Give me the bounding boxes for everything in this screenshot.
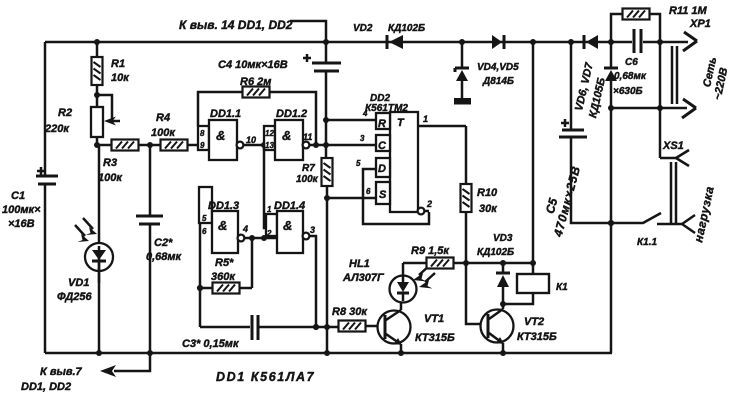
capacitor C5 470u x25V — [543, 42, 611, 239]
node: C2 tap on signal line — [147, 142, 153, 148]
svg-text:9: 9 — [200, 141, 205, 150]
wire: left column with C1 (lower part) — [44, 184, 47, 353]
wire: node A down through VD7 — [610, 42, 613, 68]
svg-text:DD1.2: DD1.2 — [276, 108, 307, 120]
svg-text:13: 13 — [265, 141, 274, 150]
resistor R2 220k (rheostat) — [44, 95, 120, 137]
node: DD1.4 output / C3 / R8 junction — [313, 324, 319, 330]
wire: pin14 feed to rail — [290, 21, 326, 42]
svg-text:R10: R10 — [477, 187, 498, 199]
svg-text:DD1.1: DD1.1 — [210, 108, 241, 120]
resistor R7 100k — [296, 158, 333, 186]
node: XS1 tap on mains pin2 wire — [657, 105, 663, 111]
svg-text:R8 30к: R8 30к — [332, 306, 368, 318]
wire: R3 to R4 — [138, 144, 161, 147]
svg-text:HL1: HL1 — [349, 258, 370, 270]
wire: DD1.2 output to DD2 C input — [309, 144, 376, 147]
svg-text:R: R — [378, 118, 386, 130]
svg-text:С4 10мк×16В: С4 10мк×16В — [218, 59, 288, 71]
output Q-bar bubble (pin 2) — [418, 208, 425, 215]
diode VD8 on rail (relay supply isolation) — [492, 35, 504, 49]
flip-flop DD2 K561TM2 — [365, 93, 418, 212]
connector XP1 pin 2 (arrow) — [611, 99, 696, 118]
capacitor C6 0.68u x630V — [611, 29, 660, 97]
svg-text:С3* 0,15мк: С3* 0,15мк — [182, 338, 240, 350]
wire: DD1.1 output branch down to DD1.4 input — [264, 145, 266, 228]
wire: Q output (pin 1) — [418, 125, 466, 128]
svg-text:0,68мк: 0,68мк — [614, 71, 647, 82]
node: relay feed on rail — [530, 39, 536, 45]
gate DD1.3 — [199, 187, 248, 253]
svg-text:5: 5 — [356, 159, 361, 168]
wire: C6 node to XS1 drop — [659, 42, 662, 158]
connector XS1 lower contact — [657, 215, 695, 233]
node: R9 / R10 / VT2-base junction — [463, 260, 469, 266]
connector XP1 pin 1 (arrow) — [660, 18, 711, 51]
svg-text:8: 8 — [200, 129, 205, 138]
diode VD3 KD102B (flyback) — [477, 233, 514, 304]
svg-text:К1: К1 — [556, 282, 568, 293]
svg-text:6: 6 — [366, 187, 371, 196]
node: DD1.3 output into DD1.4 lower input — [261, 235, 267, 241]
svg-text:VT1: VT1 — [424, 313, 444, 325]
svg-text:Д814Б: Д814Б — [482, 76, 514, 87]
node: R2/R3/VD1 junction — [94, 142, 100, 148]
svg-text:D: D — [378, 163, 386, 175]
relay coil K1 — [503, 263, 568, 304]
resistor R9 1.5k — [411, 245, 466, 269]
svg-text:DD1, DD2: DD1, DD2 — [21, 381, 71, 393]
svg-text:220к: 220к — [44, 123, 70, 135]
svg-text:11: 11 — [303, 132, 312, 142]
resistor R10 30k — [461, 184, 499, 215]
node: VT2 collector / relay bottom — [500, 301, 506, 307]
gate DD1.2 — [264, 108, 312, 160]
wire: to pin 7 arrow — [114, 353, 150, 371]
node: C5 branch on rail — [568, 39, 574, 45]
capacitor C3 0.15u — [182, 315, 339, 350]
node: C6 right / XP1 pin 1 — [657, 39, 663, 45]
wire: rail to R1 — [96, 42, 99, 57]
node: VD4/VD5 branch on rail — [459, 39, 465, 45]
node: R7 line at bottom rail — [324, 350, 330, 356]
diode VD7 KD105B — [604, 68, 618, 108]
svg-text:КТ315Б: КТ315Б — [517, 331, 557, 343]
LED HL1 AL307G — [342, 258, 435, 303]
svg-text:VD3: VD3 — [493, 233, 513, 244]
node: VD7 anode / mains pin2 junction — [608, 105, 614, 111]
svg-text:R6 2м: R6 2м — [240, 76, 271, 88]
svg-text:R2: R2 — [58, 107, 72, 119]
svg-text:2: 2 — [426, 199, 432, 209]
connector XS1 upper contact — [660, 140, 689, 166]
wire: DD1.1 output to DD1.2 inputs — [243, 144, 264, 147]
svg-text:0,68мк: 0,68мк — [146, 251, 183, 263]
svg-text:К1.1: К1.1 — [637, 237, 657, 248]
svg-text:10к: 10к — [111, 72, 130, 84]
svg-text:R7: R7 — [302, 163, 315, 174]
resistor R4 100k — [151, 112, 188, 151]
svg-text:&: & — [218, 218, 227, 233]
svg-text:К выв.7: К выв.7 — [40, 366, 83, 378]
svg-text:К561ТМ2: К561ТМ2 — [365, 103, 408, 114]
wire: Q line down through R10 — [465, 126, 468, 184]
wire: node to R3 — [97, 144, 112, 147]
svg-text:2: 2 — [266, 229, 272, 238]
svg-text:АЛ307Г: АЛ307Г — [342, 272, 385, 284]
capacitor C2 0.68u — [136, 145, 183, 353]
connector XS1 coupling line — [671, 162, 676, 224]
svg-text:3: 3 — [310, 225, 315, 235]
wire: C4 line down to R7 — [325, 120, 328, 158]
svg-text:нагрузка: нагрузка — [691, 185, 717, 244]
transistor VT1 KT315B — [378, 301, 455, 353]
resistor R3 100k — [98, 140, 139, 185]
resistor R5 360k — [200, 257, 240, 294]
svg-text:VT2: VT2 — [524, 316, 544, 328]
wire: DD1.4 output down to R8 line — [309, 236, 316, 327]
resistor R6 2M feedback — [198, 76, 316, 145]
capacitor C1 — [2, 167, 58, 230]
svg-text:×16В: ×16В — [8, 218, 35, 230]
wire: LED to R9 — [403, 262, 426, 265]
svg-text:R9 1,5к: R9 1,5к — [411, 245, 450, 257]
relay contact K1.1 — [611, 213, 661, 248]
zener diodes VD4,VD5 D814B — [454, 42, 519, 105]
gate DD1.4 — [266, 200, 315, 253]
resistor R8 30k — [332, 306, 382, 332]
arrow to pin 7 of DD1,DD2 — [100, 365, 116, 377]
svg-text:КД102Б: КД102Б — [477, 247, 514, 258]
svg-text:VD1: VD1 — [68, 277, 89, 289]
svg-text:100к: 100к — [151, 127, 176, 139]
node: VD1 at bottom rail — [96, 350, 102, 356]
svg-text:R5*: R5* — [215, 257, 234, 269]
svg-text:R1: R1 — [111, 58, 125, 70]
node: VT2 emitter at rail — [500, 350, 506, 356]
wire: relay supply line — [532, 42, 535, 263]
wire: DD1.3 output — [244, 237, 278, 240]
svg-text:КТ315Б: КТ315Б — [415, 332, 455, 344]
svg-text:1: 1 — [267, 205, 272, 214]
wire: top +supply rail — [45, 41, 611, 44]
node: C4 / DD2 R-input junction — [323, 117, 329, 123]
photodiode VD1 FD256 — [57, 145, 113, 353]
svg-text:R11 1М: R11 1М — [669, 5, 708, 17]
node: R5 left at DD1.3 input line — [197, 285, 203, 291]
svg-text:С6: С6 — [625, 57, 638, 68]
svg-text:ФД256: ФД256 — [57, 291, 92, 303]
node: R1/R2 wiper junction — [94, 92, 100, 98]
node: branch to DD1.4 — [261, 142, 267, 148]
svg-text:6: 6 — [202, 227, 207, 236]
svg-text:5: 5 — [202, 214, 207, 223]
wire: common down to bottom rail — [610, 108, 613, 353]
svg-text:R3: R3 — [103, 157, 117, 169]
wire: R1 to R2 — [96, 85, 99, 107]
node: VD3 top — [500, 260, 506, 266]
svg-text:К выв. 14 DD1, DD2: К выв. 14 DD1, DD2 — [179, 18, 293, 32]
diode VD6 KD105B on rail — [573, 35, 608, 119]
svg-text:100к: 100к — [98, 172, 123, 184]
resistor R11 1M — [611, 5, 708, 42]
node: R7 line at C3 wire — [324, 324, 330, 330]
svg-text:4: 4 — [362, 109, 368, 118]
svg-text:С2*: С2* — [154, 237, 173, 249]
svg-text:360к: 360к — [211, 271, 236, 283]
transistor VT2 KT315B — [481, 304, 557, 353]
node: mains network node A on rail — [608, 39, 614, 45]
wire: R2 bottom to R3 node — [96, 137, 99, 145]
svg-text:КД102Б: КД102Б — [388, 23, 425, 34]
svg-text:3: 3 — [360, 134, 365, 143]
wire: bottom common rail — [45, 352, 612, 355]
node: R7 / DD2 S junction — [324, 195, 330, 201]
node: C2 line at bottom rail — [147, 350, 153, 356]
svg-text:ХS1: ХS1 — [662, 140, 684, 152]
node: R6 to DD1.2 output — [313, 142, 319, 148]
wire: R5 right leg — [240, 238, 252, 288]
wire: S input from R7 node (pin 6) — [327, 197, 376, 200]
svg-text:VD4,VD5: VD4,VD5 — [477, 62, 519, 73]
svg-text:&: & — [283, 218, 292, 233]
node: R1 top junction — [94, 39, 100, 45]
svg-text:DD1.4: DD1.4 — [274, 200, 305, 212]
node: R5 right branch — [249, 235, 255, 241]
node: reset line crossing DD1.2 output — [323, 142, 329, 148]
node: common line crossing at K1.1 wire — [608, 220, 614, 226]
svg-text:&: & — [216, 128, 225, 143]
svg-text:4: 4 — [242, 224, 248, 234]
wire: R input (pin 4) — [326, 119, 376, 122]
svg-text:12: 12 — [265, 129, 274, 138]
node: VT1 emitter at rail — [398, 350, 404, 356]
svg-text:ХР1: ХР1 — [689, 18, 711, 30]
capacitor C4 10u x16V — [218, 42, 341, 120]
svg-text:R4: R4 — [156, 112, 170, 124]
svg-text:С1: С1 — [11, 190, 25, 202]
svg-text:100к: 100к — [296, 174, 319, 185]
wire: DD1.3 input line down to R5/C3 — [199, 223, 202, 327]
svg-text:VD2: VD2 — [353, 23, 373, 34]
svg-text:1: 1 — [423, 114, 428, 124]
wire: left column with C1 (upper part) — [44, 42, 47, 176]
svg-text:100мк×: 100мк× — [2, 204, 41, 216]
wire: D input feedback loop from Q-bar (pin 5 / pin 2) — [363, 169, 429, 224]
node: C4 line on rail — [323, 39, 329, 45]
wire: R7 to ground rail — [326, 186, 329, 353]
wire: down to VT2 base — [466, 263, 481, 324]
wire: R4 to DD1.1 inputs — [187, 144, 199, 147]
svg-text:&: & — [282, 128, 291, 143]
svg-text:×630Б: ×630Б — [613, 86, 643, 97]
wire: R10 to R9/VT2 node — [465, 212, 468, 263]
svg-text:C: C — [378, 140, 387, 152]
svg-text:DD1.3: DD1.3 — [208, 200, 239, 212]
resistor R1 10k — [92, 57, 131, 85]
svg-text:30к: 30к — [479, 203, 498, 215]
wire: relay line to VD3/K1 — [466, 262, 533, 265]
node: K1 top — [530, 260, 536, 266]
diode VD2 KD102B on rail — [353, 23, 425, 49]
gate DD1.1 (K561LA7) — [198, 108, 256, 160]
svg-text:DD1 К561ЛА7: DD1 К561ЛА7 — [216, 370, 315, 384]
svg-text:10: 10 — [246, 135, 256, 145]
svg-text:S: S — [379, 189, 387, 201]
connector XP1 coupling line — [672, 46, 677, 104]
